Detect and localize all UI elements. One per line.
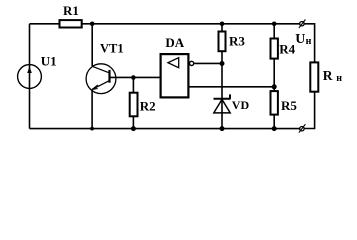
transistor VT1 bbox=[86, 64, 116, 94]
resistor R1 bbox=[60, 20, 82, 27]
wire DA output to node bbox=[194, 62, 222, 64]
svg-text:R5: R5 bbox=[281, 98, 297, 113]
wire DA feedback line to divider bbox=[189, 86, 275, 88]
op-amp DA bbox=[161, 54, 194, 97]
svg-text:U1: U1 bbox=[41, 53, 57, 68]
resistor R3 bbox=[219, 32, 226, 52]
node base/R2 junction bbox=[131, 75, 136, 80]
svg-text:VT1: VT1 bbox=[100, 42, 124, 56]
node collector junction bbox=[90, 22, 95, 27]
resistor R5 bbox=[271, 91, 278, 115]
svg-text:U: U bbox=[295, 32, 305, 47]
svg-text:R: R bbox=[323, 68, 333, 83]
wire top rail bbox=[30, 23, 300, 25]
node R4 top junction bbox=[272, 22, 277, 27]
wire base line VT1 to DA input bbox=[110, 76, 161, 78]
zener diode VD bbox=[214, 94, 231, 113]
node R5 bottom junction bbox=[272, 126, 277, 131]
node R2 bottom junction bbox=[131, 126, 136, 131]
svg-text:н: н bbox=[306, 36, 312, 47]
svg-text:н: н bbox=[336, 73, 342, 84]
terminal bottom output bbox=[299, 124, 306, 132]
node VD bottom junction bbox=[220, 126, 225, 131]
load resistor Rn bbox=[310, 62, 318, 91]
svg-text:R1: R1 bbox=[63, 3, 79, 18]
resistor R2 bbox=[130, 93, 138, 117]
svg-text:R2: R2 bbox=[140, 98, 156, 113]
wire bottom rail bbox=[30, 128, 300, 130]
wire right branch to load bbox=[304, 24, 314, 129]
node emitter bottom junction bbox=[90, 127, 94, 131]
node R3 top junction bbox=[220, 22, 225, 27]
source U1 bbox=[18, 65, 42, 89]
svg-text:R3: R3 bbox=[229, 34, 245, 49]
svg-text:R4: R4 bbox=[279, 42, 295, 57]
wire left rail (input source branch) bbox=[29, 24, 31, 129]
resistor R4 bbox=[271, 39, 278, 59]
wire R3 / VD column bbox=[221, 24, 223, 129]
wire R2 branch bbox=[132, 78, 134, 129]
node R4/R5 divider junction bbox=[272, 84, 277, 89]
wire collector/emitter branch of VT1 bbox=[91, 24, 93, 129]
svg-text:DA: DA bbox=[165, 35, 184, 50]
svg-text:VD: VD bbox=[232, 98, 250, 112]
node DA output/R3/VD junction bbox=[220, 61, 225, 66]
wire R4 / R5 column bbox=[273, 24, 275, 129]
terminal top output bbox=[299, 20, 306, 28]
